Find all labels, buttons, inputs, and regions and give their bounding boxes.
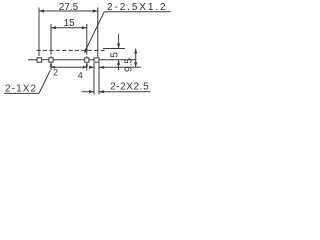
- pad 4 width extension line left: [93, 63, 95, 95]
- svg-text:15: 15: [63, 18, 75, 29]
- svg-text:2: 2: [53, 68, 58, 78]
- dimension 27.5 line: [39, 10, 98, 12]
- dimension 27.5 arrow right: [93, 9, 98, 12]
- label 2-2.5X1.2 leader arrowhead: [85, 48, 88, 53]
- dimension 15 line: [51, 27, 87, 29]
- pad 2 centerline / 15 extension left: [50, 24, 52, 53]
- pad 3 (1X2 pad): [85, 58, 89, 62]
- svg-text:5: 5: [109, 52, 120, 58]
- leader arrow on pad 3 centerline: [85, 62, 88, 66]
- svg-text:4: 4: [78, 71, 83, 81]
- svg-text:2-2X2.5: 2-2X2.5: [110, 81, 149, 92]
- leader arrow on pad 2 centerline: [50, 62, 53, 66]
- dimension 5 upper arrow (outside, pointing down): [118, 34, 120, 49]
- label 2-2.5X1.2 leader: [85, 12, 105, 53]
- dimension 27.5 arrow left: [39, 9, 44, 12]
- pad 2 (1X2 pad): [49, 58, 53, 62]
- pad 1 (2X2.5 mount pad left): [37, 58, 42, 62]
- dimension 15 arrow left: [51, 26, 56, 29]
- dimension 15 arrow right: [82, 26, 87, 29]
- dimension 27.5 extension line left: [38, 8, 40, 57]
- svg-text:2-1X2: 2-1X2: [5, 83, 37, 94]
- svg-text:9.5: 9.5: [124, 58, 135, 72]
- inner dimension line between pad centerlines: [51, 66, 87, 68]
- label 2-2X2.5 arrow left (pointing right): [82, 91, 95, 93]
- label 2-2X2.5 arrow right (pointing left) + underline: [99, 91, 150, 93]
- dimension 5 lower arrow (outside, pointing up): [118, 60, 120, 70]
- small arrow pointing right at pad 4 left edge: [90, 66, 94, 68]
- pad 3 centerline / 15 extension right: [86, 24, 88, 53]
- dimension 9.5 arrow bottom: [134, 62, 137, 67]
- bottom extension line right: [99, 66, 141, 68]
- pad 4 (2X2.5 mount pad right): [94, 58, 99, 62]
- dimension 5 top extension line: [103, 48, 125, 50]
- pad 4 width extension line right: [98, 63, 100, 95]
- label 2-1X2 leader: [39, 71, 50, 94]
- label 2-1X2 underline: [4, 92, 39, 94]
- dimension 9.5 line: [135, 49, 137, 68]
- hidden body outline (dashed): [37, 49, 108, 51]
- dimension 27.5 extension line right: [97, 8, 99, 58]
- label 2-2.5X1.2 underline: [104, 11, 170, 13]
- horizontal centerline through pads: [28, 59, 137, 61]
- svg-text:27.5: 27.5: [59, 2, 79, 13]
- dimension 9.5 arrow top: [134, 49, 137, 54]
- arrow pointing left at pad 4 right edge: [99, 66, 104, 69]
